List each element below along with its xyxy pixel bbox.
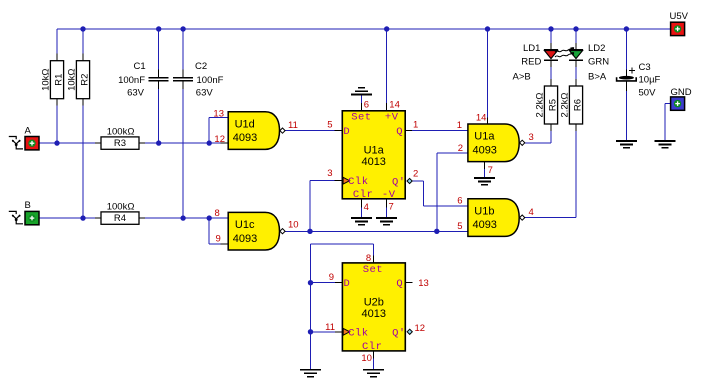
svg-text:C1: C1 [134, 61, 146, 72]
svg-text:4093: 4093 [472, 144, 496, 156]
svg-text:C3: C3 [639, 62, 651, 73]
svg-text:U1a: U1a [474, 131, 495, 143]
svg-text:Clk: Clk [348, 327, 368, 339]
svg-text:Clr: Clr [362, 341, 382, 353]
svg-text:50V: 50V [639, 88, 657, 99]
svg-text:LD2: LD2 [588, 43, 605, 54]
svg-text:10kΩ: 10kΩ [41, 68, 52, 90]
svg-text:R6: R6 [573, 99, 584, 111]
svg-text:8: 8 [366, 253, 371, 264]
svg-text:Q: Q [396, 278, 403, 290]
svg-text:GRN: GRN [588, 56, 609, 67]
svg-text:Q': Q' [392, 177, 406, 189]
svg-text:Q': Q' [392, 328, 406, 340]
svg-text:9: 9 [329, 272, 334, 283]
svg-text:13: 13 [213, 108, 224, 119]
svg-text:14: 14 [476, 113, 487, 124]
svg-text:12: 12 [214, 134, 225, 145]
svg-text:2.2kΩ: 2.2kΩ [560, 92, 571, 117]
svg-text:4: 4 [529, 207, 534, 218]
svg-text:U1b: U1b [474, 206, 494, 218]
svg-text:R1: R1 [54, 74, 65, 86]
svg-text:C2: C2 [195, 61, 207, 72]
svg-text:+V: +V [385, 112, 399, 124]
svg-text:5: 5 [327, 120, 332, 131]
svg-text:100nF: 100nF [118, 75, 145, 86]
svg-text:R2: R2 [80, 74, 91, 86]
svg-text:B>A: B>A [588, 72, 607, 83]
svg-text:63V: 63V [196, 88, 214, 99]
svg-text:10µF: 10µF [639, 75, 661, 86]
svg-text:-V: -V [382, 189, 396, 201]
svg-text:1: 1 [413, 120, 418, 131]
svg-text:6: 6 [364, 100, 369, 111]
svg-text:11: 11 [325, 322, 335, 333]
svg-text:2.2kΩ: 2.2kΩ [535, 92, 546, 117]
svg-text:8: 8 [215, 208, 220, 219]
svg-text:Q: Q [396, 126, 403, 138]
svg-text:R4: R4 [114, 213, 126, 224]
svg-text:U2b: U2b [364, 297, 384, 309]
svg-text:U1d: U1d [235, 119, 255, 131]
svg-text:3: 3 [529, 132, 534, 143]
svg-text:A>B: A>B [513, 71, 531, 82]
svg-text:5: 5 [457, 221, 462, 232]
svg-text:11: 11 [288, 120, 298, 131]
svg-text:7: 7 [389, 202, 394, 213]
svg-text:10: 10 [288, 219, 299, 230]
svg-text:U5V: U5V [670, 11, 689, 22]
svg-text:100nF: 100nF [197, 75, 224, 86]
svg-text:D: D [343, 278, 350, 290]
svg-text:A: A [25, 125, 32, 136]
svg-text:10kΩ: 10kΩ [67, 68, 78, 90]
svg-text:R5: R5 [548, 99, 559, 111]
svg-text:GND: GND [671, 87, 692, 98]
svg-text:LD1: LD1 [523, 43, 540, 54]
svg-text:R3: R3 [114, 138, 126, 149]
svg-text:13: 13 [418, 278, 429, 289]
svg-text:100kΩ: 100kΩ [107, 202, 135, 213]
svg-text:Set: Set [351, 112, 371, 124]
svg-text:4093: 4093 [472, 219, 496, 231]
svg-text:U1a: U1a [364, 144, 385, 156]
svg-text:2: 2 [413, 169, 418, 180]
svg-text:U1c: U1c [235, 219, 255, 231]
svg-text:Clr: Clr [353, 189, 373, 201]
svg-text:2: 2 [458, 143, 463, 154]
svg-text:100kΩ: 100kΩ [107, 127, 135, 138]
svg-text:4093: 4093 [233, 233, 257, 245]
svg-text:14: 14 [389, 100, 400, 111]
svg-text:RED: RED [521, 56, 541, 67]
svg-text:Clk: Clk [348, 176, 368, 188]
svg-text:9: 9 [216, 234, 221, 245]
svg-text:7: 7 [488, 165, 493, 176]
svg-text:10: 10 [361, 353, 372, 364]
svg-text:4013: 4013 [361, 156, 385, 168]
svg-text:4: 4 [364, 202, 369, 213]
svg-text:63V: 63V [127, 88, 145, 99]
svg-text:D: D [343, 126, 350, 138]
svg-text:Set: Set [363, 264, 383, 276]
svg-text:4013: 4013 [362, 308, 386, 320]
svg-text:3: 3 [327, 168, 332, 179]
svg-text:B: B [25, 200, 31, 211]
svg-text:1: 1 [457, 120, 462, 131]
svg-text:6: 6 [457, 196, 462, 207]
svg-text:4093: 4093 [233, 132, 257, 144]
svg-text:12: 12 [415, 323, 426, 334]
